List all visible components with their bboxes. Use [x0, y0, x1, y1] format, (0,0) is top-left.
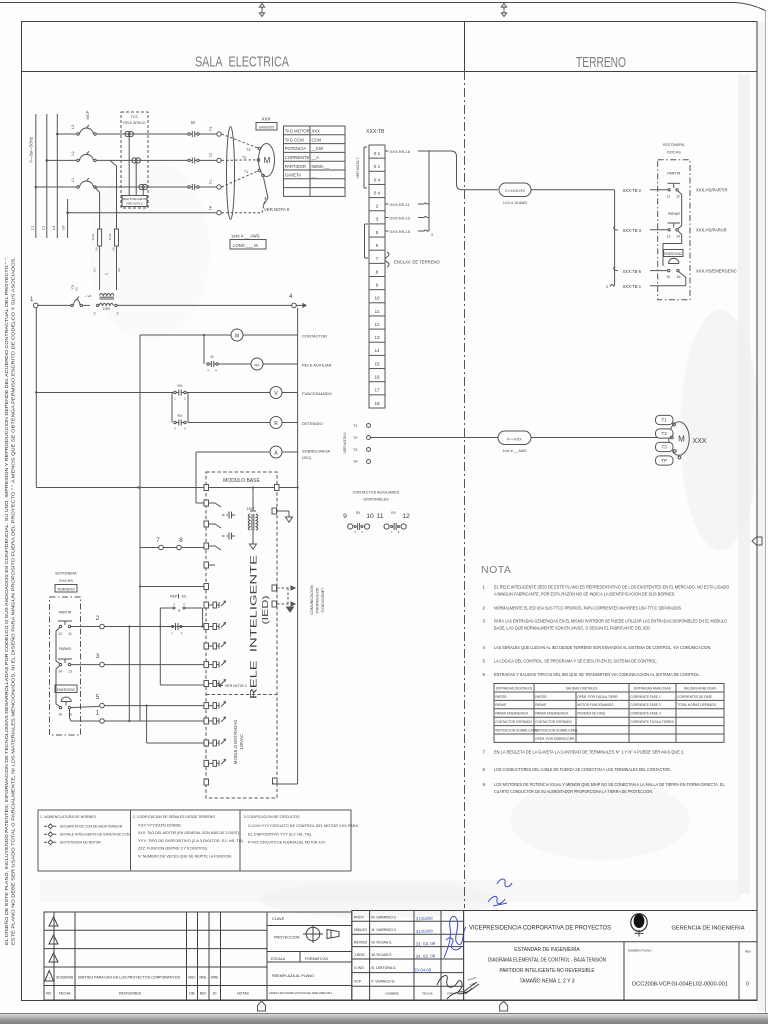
svg-text:TAG MOTOR: TAG MOTOR	[285, 129, 310, 134]
svg-text:VER NOTA 7: VER NOTA 7	[356, 158, 360, 179]
svg-text:NOTAS: NOTAS	[237, 992, 249, 996]
svg-text:RELE AUXILIAR: RELE AUXILIAR	[302, 362, 332, 367]
svg-text:TP: TP	[661, 458, 667, 463]
svg-text:1x4c # __ AWG: 1x4c # __ AWG	[231, 234, 260, 239]
svg-text:BOTONERA: BOTONERA	[55, 572, 77, 576]
svg-text:31. 03. 08: 31. 03. 08	[416, 953, 436, 959]
svg-text:EL DISPOSITIVO YYY (EJ: HS, TB: EL DISPOSITIVO YYY (EJ: HS, TB).	[248, 832, 312, 836]
svg-text:1FU2: 1FU2	[108, 233, 112, 241]
svg-text:P=XXX CIRCUITO DE FUERZA DEL M: P=XXX CIRCUITO DE FUERZA DEL MOTOR XXX.	[248, 841, 326, 845]
svg-text:CORRIENTE: CORRIENTE	[285, 155, 310, 160]
svg-text:PARA LAS ENTRADAS GENERADAS EN: PARA LAS ENTRADAS GENERADAS EN EL MISMO …	[494, 619, 727, 624]
svg-text:1. NOMENCLATURA DE BORNES: 1. NOMENCLATURA DE BORNES	[40, 815, 96, 819]
svg-text:PARTIR: PARTIR	[495, 695, 507, 699]
svg-text:9: 9	[343, 513, 347, 520]
svg-text:A NINGUN FABRICANTE, POR ESTA: A NINGUN FABRICANTE, POR ESTA RAZON NO S…	[494, 592, 675, 597]
svg-text:T1: T1	[244, 170, 248, 174]
svg-text:10: 10	[374, 296, 380, 301]
svg-text:XXX:TB-2: XXX:TB-2	[623, 188, 642, 193]
svg-text:15: 15	[666, 275, 670, 279]
svg-text:03-04-08: 03-04-08	[414, 967, 432, 972]
svg-text:120V: 120V	[247, 507, 256, 511]
svg-text:0 4: 0 4	[374, 177, 381, 182]
svg-text:7: 7	[156, 537, 160, 544]
svg-text:L1: L1	[29, 225, 34, 230]
svg-text:ESTANDAR DE INGENIERÍA: ESTANDAR DE INGENIERÍA	[514, 946, 580, 953]
svg-text:ENTRADAS DIGITALES: ENTRADAS DIGITALES	[496, 686, 533, 690]
svg-text:M: M	[191, 120, 195, 125]
svg-text:120V: 120V	[103, 307, 112, 311]
svg-text:31/03/08: 31/03/08	[416, 928, 434, 934]
svg-text:CONTACTOR CERRADO: CONTACTOR CERRADO	[535, 720, 572, 724]
svg-text:DETENIDO: DETENIDO	[302, 421, 323, 426]
svg-text:TCC: TCC	[131, 115, 139, 119]
svg-text:SC: SC	[182, 595, 187, 599]
svg-text:XXX:HS-11: XXX:HS-11	[390, 202, 411, 207]
svg-text:SALA ELECTRICA: SALA ELECTRICA	[195, 54, 289, 71]
svg-text:XXX:TB-1: XXX:TB-1	[623, 284, 642, 289]
svg-text:RX: RX	[178, 384, 184, 388]
svg-text:CONTACTOR CERRADO: CONTACTOR CERRADO	[495, 720, 532, 724]
svg-text:PARTIDOR: PARTIDOR	[285, 164, 306, 169]
svg-text:CORRIENTE FASE 1: CORRIENTE FASE 1	[630, 695, 661, 699]
svg-text:TP: TP	[209, 205, 213, 210]
svg-text:T2: T2	[242, 156, 246, 160]
svg-text:2: 2	[376, 204, 379, 209]
svg-text:GERENCIA DE INGENIERIA: GERENCIA DE INGENIERIA	[672, 926, 745, 932]
svg-text:1x7c # 16 AWG: 1x7c # 16 AWG	[503, 201, 527, 205]
svg-text:3: 3	[96, 653, 100, 660]
svg-text:M. GARRIDO C.: M. GARRIDO C.	[372, 916, 398, 920]
svg-text:PARAR EMERGENCIA: PARAR EMERGENCIA	[535, 712, 569, 716]
svg-text:DISPONIBLES: DISPONIBLES	[363, 498, 389, 502]
svg-text:PARAR: PARAR	[495, 703, 506, 707]
svg-text:8: 8	[179, 537, 183, 544]
svg-text:11: 11	[375, 309, 380, 314]
svg-text:MCP: MCP	[85, 110, 90, 119]
svg-text:31/03/2008: 31/03/2008	[56, 975, 73, 979]
svg-text:TOTAL HORAS OPERADO: TOTAL HORAS OPERADO	[677, 703, 716, 707]
svg-text:CORRIENTE FASE 2: CORRIENTE FASE 2	[630, 703, 661, 707]
svg-text:POTENCIA: POTENCIA	[285, 146, 307, 151]
svg-text:NO.: NO.	[46, 992, 52, 996]
svg-text:W. ROJAS E.: W. ROJAS E.	[372, 941, 393, 945]
svg-text:291107-DCC2006-VCP.GIN-EL1006-: 291107-DCC2006-VCP.GIN-EL1006-0000-001	[269, 991, 332, 995]
svg-text:14: 14	[676, 235, 680, 239]
svg-text:FECHA: FECHA	[59, 992, 71, 996]
svg-text:T1: T1	[353, 424, 357, 428]
svg-text:EN RELE INTELIGENTE DE GAVETA: EN RELE INTELIGENTE DE GAVETA DE CCM	[60, 833, 130, 837]
svg-text:VCP: VCP	[354, 979, 362, 983]
svg-text:18: 18	[374, 401, 380, 406]
svg-text:2. CODIFICACION DE SEÑALES DE: 2. CODIFICACION DE SEÑALES DESDE TERRENO	[133, 814, 215, 819]
svg-text:NORMALMENTE EL IED USA SUS TTC: NORMALMENTE EL IED USA SUS TTCC PROPIOS,…	[494, 606, 682, 611]
svg-text:MODULO ENTRADAS: MODULO ENTRADAS	[233, 720, 238, 764]
svg-text:T3: T3	[662, 445, 668, 450]
svg-text:NUMERO PLANO: NUMERO PLANO	[628, 949, 652, 953]
svg-text:5A: 5A	[75, 287, 79, 291]
svg-text:CONTACTOS AUXILIARES: CONTACTOS AUXILIARES	[353, 491, 400, 495]
svg-text:SALIDAS DIGITALES: SALIDAS DIGITALES	[566, 686, 599, 690]
svg-text:YYY: TIPO DE DISPOSITIVO (2 A: YYY: TIPO DE DISPOSITIVO (2 A 3 DIGITOS,…	[138, 839, 244, 843]
svg-text:(SIC): (SIC)	[302, 455, 312, 460]
svg-text:PARTIR: PARTIR	[535, 695, 547, 699]
svg-text:GAVENOX: GAVENOX	[259, 125, 275, 129]
svg-text:RX: RX	[255, 364, 261, 368]
svg-text:DIBUJO: DIBUJO	[354, 928, 367, 932]
svg-text:X1: X1	[93, 311, 97, 315]
svg-text:REVISIONES: REVISIONES	[119, 992, 142, 996]
svg-text:R: R	[274, 421, 278, 427]
svg-text:MOTOR FUNCIONANDO: MOTOR FUNCIONANDO	[577, 703, 614, 707]
svg-text:13: 13	[667, 235, 671, 239]
svg-text:CUARTO CONDUCTOR DE SU ALIMENT: CUARTO CONDUCTOR DE SU ALIMENTADOR PROPO…	[494, 789, 653, 794]
svg-text:6: 6	[376, 243, 379, 248]
svg-text:XXX:TB-3: XXX:TB-3	[623, 228, 642, 233]
svg-text:PROFIBUS-DP,: PROFIBUS-DP,	[316, 587, 320, 613]
svg-text:15: 15	[68, 713, 72, 717]
svg-text:L3: L3	[51, 225, 56, 230]
svg-text:N: NUMERO DE VECES QUE SE R: N: NUMERO DE VECES QUE SE REPITE LA FUNC…	[138, 854, 232, 858]
svg-text:REV: REV	[745, 950, 751, 954]
svg-text:0: 0	[746, 982, 749, 988]
svg-text:RELE INTELIG: RELE INTELIG	[123, 121, 146, 125]
svg-text:RELE INTELIGENTE: RELE INTELIGENTE	[249, 555, 259, 699]
svg-text:16: 16	[58, 713, 62, 717]
svg-text:0 4: 0 4	[374, 190, 381, 195]
svg-text:XXX: XXX	[261, 117, 270, 122]
svg-text:15: 15	[374, 361, 380, 366]
svg-text:10: 10	[366, 513, 374, 520]
svg-text:COMUNICACION: COMUNICACION	[310, 585, 314, 615]
svg-text:T2: T2	[353, 436, 357, 440]
svg-text:CORRIENTE FUGA A TIERRA: CORRIENTE FUGA A TIERRA	[630, 720, 674, 724]
svg-text:11: 11	[68, 632, 72, 636]
svg-text:PARAR: PARAR	[535, 703, 546, 707]
svg-text:L1: L1	[71, 178, 75, 182]
svg-text:XXX.HS/PARAR: XXX.HS/PARAR	[696, 228, 727, 233]
svg-text:NOMBRE: NOMBRE	[385, 992, 398, 996]
svg-text:2A: 2A	[95, 247, 99, 251]
svg-text:OPER. POR SOBRECORR: OPER. POR SOBRECORR	[535, 737, 575, 741]
svg-text:13: 13	[68, 670, 72, 674]
svg-text:T1: T1	[662, 418, 668, 423]
svg-text:M: M	[235, 334, 239, 340]
svg-text:DIB: DIB	[189, 992, 194, 996]
svg-text:XXX:HS-13: XXX:HS-13	[390, 216, 411, 221]
svg-text:5: 5	[96, 694, 100, 701]
svg-text:TP: TP	[61, 225, 66, 230]
svg-text:RX: RX	[178, 414, 184, 418]
svg-text:PROYECCION: PROYECCION	[274, 936, 300, 940]
svg-text:B. LERTORA D.: B. LERTORA D.	[372, 966, 397, 970]
svg-text:NEMA __: NEMA __	[312, 164, 330, 169]
svg-text:ENTRADAS ANALOGAS: ENTRADAS ANALOGAS	[634, 686, 672, 690]
svg-text:PROY: PROY	[354, 916, 365, 920]
svg-text:NOTA: NOTA	[481, 564, 511, 576]
svg-text:SOBRECARGA: SOBRECARGA	[302, 449, 331, 454]
svg-text:H1: H1	[93, 268, 97, 272]
svg-text:MDE: MDE	[199, 975, 206, 979]
svg-text:17: 17	[374, 388, 380, 393]
svg-text:T3: T3	[209, 127, 213, 131]
svg-text:H2: H2	[117, 268, 121, 272]
svg-text:(IED): (IED)	[261, 595, 270, 625]
svg-text:3: 3	[376, 217, 379, 222]
svg-text:WRE: WRE	[211, 975, 218, 979]
svg-text:EMITIDO PARA USO EN LOS PROYEC: EMITIDO PARA USO EN LOS PROYECTOS CORPOR…	[78, 975, 181, 979]
svg-text:T1: T1	[209, 180, 213, 184]
svg-text:REV: REV	[200, 992, 207, 996]
svg-text:VICEPRESIDENCIA CORPORATIVA DE: VICEPRESIDENCIA CORPORATIVA DE PROYECTOS	[469, 926, 611, 932]
svg-text:__KW: __KW	[311, 146, 323, 151]
svg-text:CONTACTOR: CONTACTOR	[302, 333, 327, 338]
svg-text:PARTIR: PARTIR	[59, 611, 72, 615]
svg-text:11: 11	[376, 513, 383, 520]
svg-text:X2: X2	[116, 311, 120, 315]
svg-text:REPOSICION SOBRE-CARG: REPOSICION SOBRE-CARG	[495, 728, 538, 732]
svg-text:16: 16	[374, 375, 380, 380]
svg-text:M: M	[678, 435, 685, 444]
svg-text:LOS CONDUCTORES DEL CABLE DE F: LOS CONDUCTORES DEL CABLE DE FUERZA SE C…	[494, 767, 671, 772]
svg-text:CORRIENTES DE FASE: CORRIENTES DE FASE	[677, 695, 712, 699]
svg-text:MGC: MGC	[188, 975, 196, 979]
svg-text:T3: T3	[246, 148, 250, 152]
svg-text:W. ROJAS E.: W. ROJAS E.	[372, 953, 393, 957]
svg-text:OPER. POR FUGA A TIERR: OPER. POR FUGA A TIERR	[577, 695, 618, 699]
svg-text:9: 9	[376, 282, 379, 287]
svg-text:CORRIENTE FASE 3: CORRIENTE FASE 3	[630, 712, 661, 716]
svg-text:EN GAVETA DE CCM DE BAJA TENSI: EN GAVETA DE CCM DE BAJA TENSION	[60, 825, 123, 829]
svg-text:L2: L2	[71, 151, 75, 155]
svg-text:0 1: 0 1	[374, 164, 381, 169]
svg-text:PARTIR: PARTIR	[667, 172, 680, 176]
svg-text:ENCLAV. DE TERRENO: ENCLAV. DE TERRENO	[394, 260, 441, 265]
svg-text:5: 5	[376, 230, 379, 235]
svg-text:VER NOTA 3: VER NOTA 3	[225, 684, 247, 688]
svg-text:TAG CCM: TAG CCM	[285, 137, 305, 142]
svg-text:G ING: G ING	[354, 966, 364, 970]
svg-text:ESCALA: ESCALA	[271, 957, 286, 961]
svg-text:F. VIVANCO G.: F. VIVANCO G.	[372, 979, 396, 983]
svg-text:JD: JD	[213, 992, 218, 996]
svg-text:DIAGRAMA ELEMENTAL DE CONTROL: DIAGRAMA ELEMENTAL DE CONTROL - BAJA TEN…	[488, 957, 606, 964]
svg-text:M: M	[264, 156, 271, 165]
svg-text:REP: REP	[170, 595, 178, 599]
svg-text:L2: L2	[40, 225, 45, 230]
svg-text:T3: T3	[353, 448, 357, 452]
svg-text:P—XXX: P—XXX	[507, 436, 522, 441]
svg-text:C=XXX:HS: C=XXX:HS	[505, 188, 525, 193]
svg-text:7: 7	[376, 256, 379, 261]
svg-text:12: 12	[58, 632, 62, 636]
svg-text:3 CODIFICACION DE CIRCUITO: 3 CODIFICACION DE CIRCUITOS	[244, 815, 300, 819]
svg-text:C=XXX:YYY CIRCUITO DE CONTR: C=XXX:YYY CIRCUITO DE CONTROL DEL MOTOR …	[248, 824, 359, 828]
svg-text:XXX:TB: XXX:TB	[366, 129, 385, 135]
svg-text:BASE, LAS QUE NORMALMENTE SON: BASE, LAS QUE NORMALMENTE SON EN 24VDC, …	[494, 626, 651, 631]
svg-text:XXX: TAG DEL MOTOR (EN GENERAL: XXX: TAG DEL MOTOR (EN GENERAL SON MAS D…	[138, 831, 240, 835]
svg-text:14: 14	[374, 348, 380, 353]
svg-text:TP: TP	[353, 460, 358, 464]
svg-text:REEMPLAZA AL PLANO: REEMPLAZA AL PLANO	[272, 974, 314, 978]
svg-text:MODULO BASE: MODULO BASE	[223, 478, 260, 484]
svg-text:TAMAÑO NEMA 1, 2 Y 3: TAMAÑO NEMA 1, 2 Y 3	[519, 978, 574, 985]
svg-text:REPOSICION SOBRE-CARG: REPOSICION SOBRE-CARG	[535, 728, 578, 732]
svg-text:VER NOTA 6: VER NOTA 6	[343, 433, 347, 454]
svg-text:13: 13	[374, 335, 380, 340]
svg-text:ENTRADAS Y SALIDAS TIPICAS DEL: ENTRADAS Y SALIDAS TIPICAS DEL IED QUE S…	[494, 672, 700, 677]
svg-text:!: !	[49, 977, 50, 981]
svg-text:FUNCIONANDO: FUNCIONANDO	[302, 391, 332, 396]
svg-text:1: 1	[96, 710, 100, 717]
svg-text:FECHA: FECHA	[422, 992, 432, 996]
svg-text:31/03/08: 31/03/08	[416, 916, 434, 922]
svg-text:XXX:HS: XXX:HS	[667, 151, 681, 155]
svg-text:0 1: 0 1	[374, 151, 381, 156]
svg-text:L3: L3	[71, 125, 75, 129]
svg-text:PARTIDOR INTELIGENTE-NO REVERS: PARTIDOR INTELIGENTE-NO REVERSIBLE	[500, 968, 596, 974]
svg-text:M. GARRIDO C.: M. GARRIDO C.	[372, 928, 398, 932]
svg-text:BOTONERA: BOTONERA	[663, 143, 685, 147]
svg-text:120VAC: 120VAC	[239, 734, 244, 750]
svg-text:CLAVE: CLAVE	[272, 917, 285, 921]
svg-text:2: 2	[96, 615, 100, 622]
svg-text:12: 12	[676, 195, 680, 199]
svg-text:EN LA REGLETA DE LA GAVETA LA: EN LA REGLETA DE LA GAVETA LA CANTIDAD D…	[494, 750, 684, 755]
svg-text:O DEVICENET: O DEVICENET	[321, 587, 325, 613]
svg-text:PERDIDA DE FASE: PERDIDA DE FASE	[577, 712, 605, 716]
svg-text:TERRENO: TERRENO	[576, 54, 626, 71]
svg-text:__: __	[311, 173, 317, 178]
svg-text:RELE INTELIGENTE: RELE INTELIGENTE	[122, 197, 147, 201]
svg-text:PARAR: PARAR	[668, 212, 681, 216]
svg-text:EL DISEÑO DE ESTE PLANO, INCLU: EL DISEÑO DE ESTE PLANO, INCLUYENDO PATE…	[4, 257, 9, 945]
svg-text:V—3ø—50Hz: V—3ø—50Hz	[28, 137, 33, 163]
svg-text:31. 03. 08: 31. 03. 08	[416, 941, 436, 947]
svg-text:16: 16	[677, 275, 681, 279]
svg-text:T2: T2	[662, 431, 668, 436]
svg-text:XXX.HS/PARTIR: XXX.HS/PARTIR	[696, 188, 728, 193]
svg-text:LAS SEÑALES QUE LLEGAN AL IED: LAS SEÑALES QUE LLEGAN AL IED DESDE TERR…	[494, 645, 711, 650]
svg-text:REVISO: REVISO	[354, 941, 368, 945]
svg-text:XXX:HS: XXX:HS	[59, 579, 73, 583]
svg-text:PARAR: PARAR	[59, 647, 72, 651]
svg-text:J.DISC: J.DISC	[354, 953, 366, 957]
svg-text:XXX.HS/EMERGENC: XXX.HS/EMERGENC	[696, 268, 737, 273]
svg-text:PARAR EMERGENCIA: PARAR EMERGENCIA	[495, 712, 529, 716]
svg-text:14: 14	[58, 670, 62, 674]
svg-text:XXX:YYY/ZZZN DONDE:: XXX:YYY/ZZZN DONDE:	[138, 824, 182, 828]
svg-text:—V: —V	[103, 272, 108, 276]
svg-text:2A: 2A	[112, 247, 116, 251]
svg-text:XXX: XXX	[312, 129, 321, 134]
svg-text:ESTE PLANO NO DEBE SER USADO T: ESTE PLANO NO DEBE SER USADO TOTAL O PAR…	[11, 257, 16, 945]
svg-text:M: M	[211, 355, 214, 359]
svg-text:XXX:HS-16: XXX:HS-16	[390, 149, 411, 154]
svg-text:LONG ___ M: LONG ___ M	[233, 243, 258, 248]
svg-text:12: 12	[374, 322, 380, 327]
svg-text:(VER NOTA 2): (VER NOTA 2)	[126, 202, 143, 206]
svg-text:SALIDAS ANALOGAS: SALIDAS ANALOGAS	[684, 686, 718, 690]
svg-text:3: 3	[431, 233, 433, 237]
svg-text:DCC2008-VCP.GI-004EL02-0000-00: DCC2008-VCP.GI-004EL02-0000-001	[632, 982, 728, 988]
svg-text:TERRENO: TERRENO	[57, 587, 75, 591]
svg-text:VER NOTA 9: VER NOTA 9	[264, 207, 290, 212]
svg-text:T2: T2	[209, 153, 213, 157]
svg-text:XXX:HS-15: XXX:HS-15	[390, 229, 411, 234]
svg-text:EMERGENC: EMERGENC	[57, 688, 76, 692]
svg-text:1FU1: 1FU1	[91, 233, 95, 241]
svg-text:XXX:TB-5: XXX:TB-5	[623, 269, 642, 274]
svg-text:LA LOGICA DEL CONTROL, SE PROG: LA LOGICA DEL CONTROL, SE PROGRAMA Y SE …	[494, 659, 658, 664]
svg-text:8: 8	[376, 269, 379, 274]
svg-text:1x4c # __ AWG: 1x4c # __ AWG	[502, 449, 526, 453]
svg-text:GAVETA: GAVETA	[285, 173, 302, 178]
svg-text:EL RELE INTELIGENTE (IED) DE E: EL RELE INTELIGENTE (IED) DE ESTE PLANO …	[494, 585, 730, 590]
svg-text:FORMATO A3: FORMATO A3	[305, 957, 328, 961]
svg-text:CCM: CCM	[312, 137, 322, 142]
svg-text:XXX: XXX	[693, 438, 707, 445]
svg-text:—VA: —VA	[85, 294, 92, 298]
svg-text:3: 3	[606, 285, 608, 289]
svg-text:EMERGENC: EMERGENC	[664, 252, 683, 256]
svg-text:12: 12	[402, 513, 410, 520]
svg-text:__A: __A	[311, 155, 320, 160]
svg-text:EN POTENCIA DE MOTOR: EN POTENCIA DE MOTOR	[60, 841, 101, 845]
svg-text:LOS MOTORES DE POTENCIA IGUAL: LOS MOTORES DE POTENCIA IGUAL Y MENOR QU…	[494, 782, 725, 787]
svg-text:11: 11	[667, 195, 671, 199]
svg-text:ZZZ: FUNCION (ENTRE 3 Y 8 DIGI: ZZZ: FUNCION (ENTRE 3 Y 8 DIGITOS).	[138, 847, 208, 851]
